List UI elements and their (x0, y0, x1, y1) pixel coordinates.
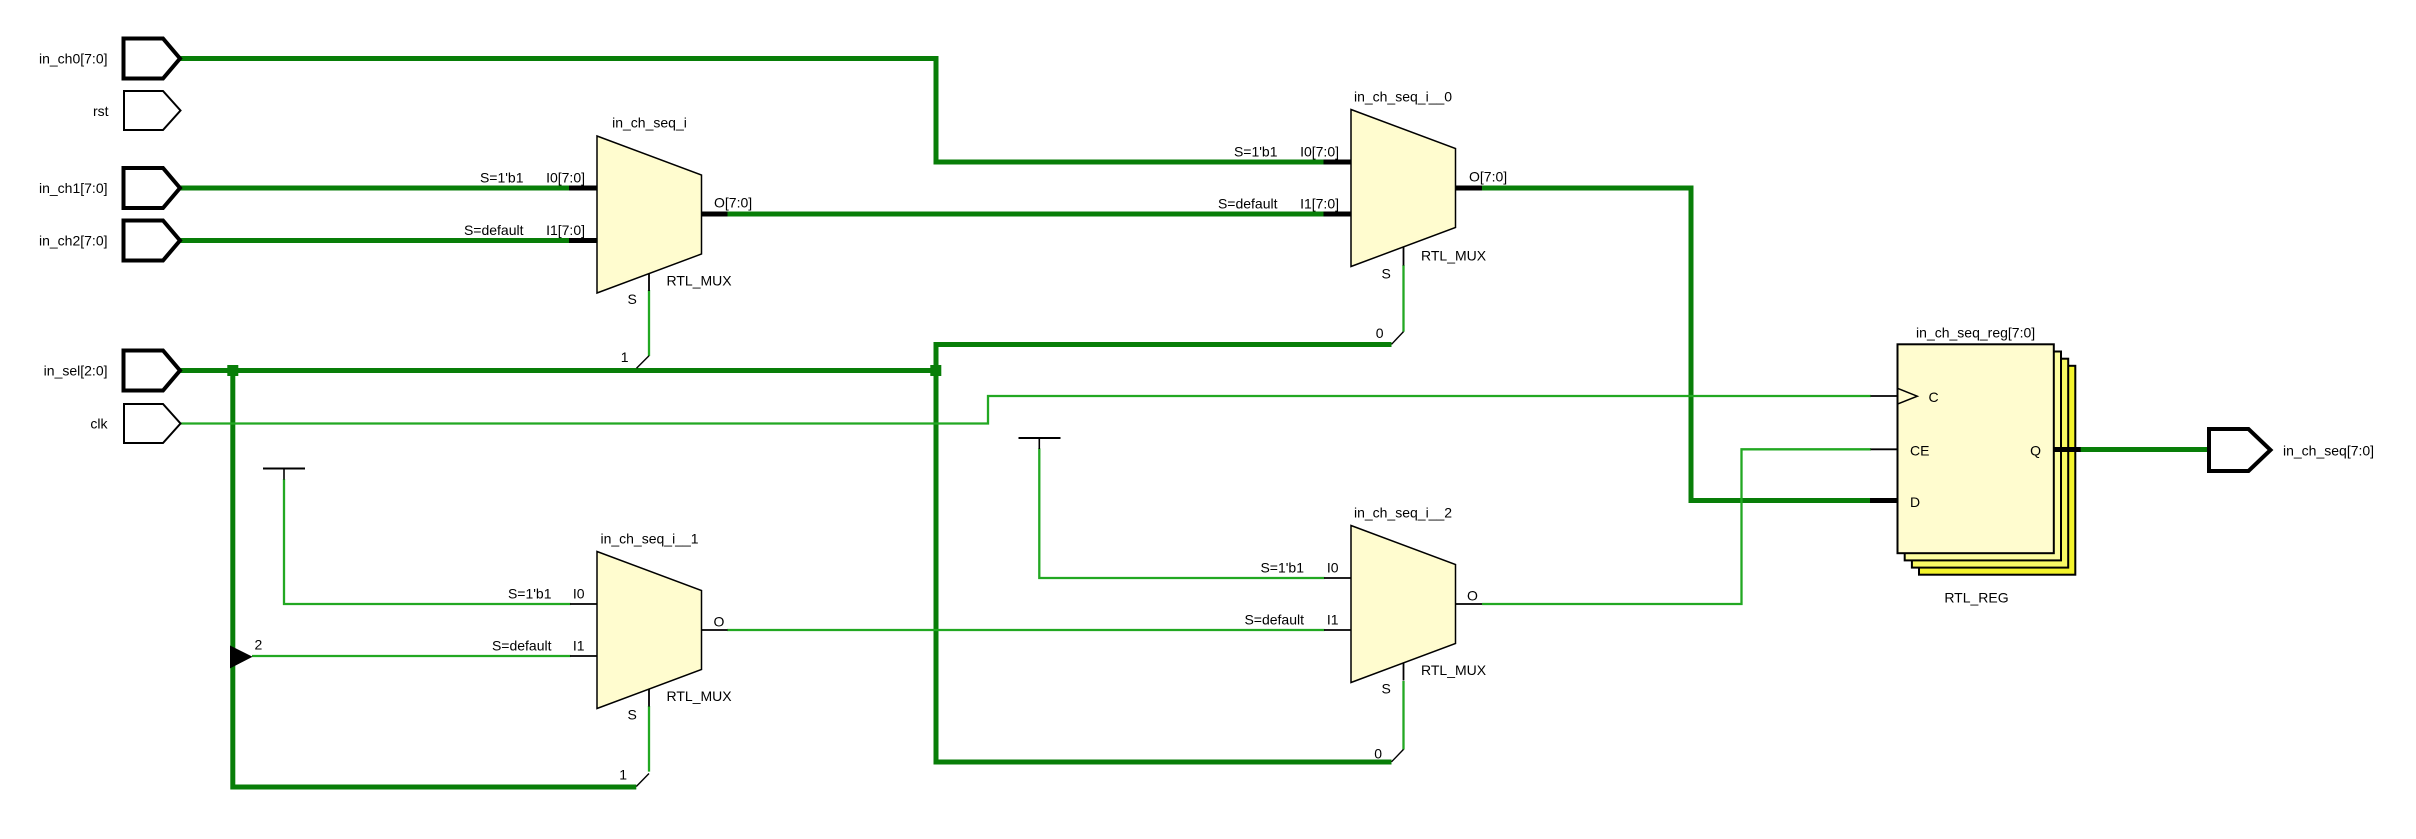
wire bus register Q to output port (2080, 447, 2209, 452)
register stacked layer 2 (1905, 352, 2061, 561)
mux U1 pin S stub (648, 274, 650, 292)
mux U4 in_ch_seq_i__2 body (1351, 526, 1456, 683)
mux U2 pin label I0[7:0] (1300, 144, 1339, 160)
svg-text:in_ch0[7:0]: in_ch0[7:0] (39, 51, 108, 67)
wire net clk to register C (180, 396, 1871, 424)
svg-text:S=default: S=default (464, 222, 524, 238)
wire net mux3 S vertical (648, 706, 650, 772)
wire net mux3 O to mux4 I1 (727, 629, 1325, 631)
wire net mux4 S vertical (1402, 681, 1404, 750)
mux U2 S net value label 0 (1376, 325, 1384, 341)
svg-text:in_ch_seq_i__1: in_ch_seq_i__1 (600, 531, 698, 547)
register clock input triangle on C pin (1898, 388, 1918, 404)
wire net in_sel bit2 tap to mux3 I1 (252, 655, 571, 657)
svg-text:S: S (628, 291, 637, 307)
wire bus in_sel branch left vertical to bottom run (233, 368, 637, 787)
register pin Q stub (2054, 447, 2081, 452)
mux U2 type label RTL_MUX (1421, 248, 1487, 264)
svg-text:clk: clk (90, 416, 108, 432)
svg-text:I1: I1 (573, 638, 585, 654)
svg-text:RTL_MUX: RTL_MUX (1421, 662, 1487, 678)
register pin label D (1910, 494, 1920, 510)
mux U4 S net value label 0 (1374, 746, 1382, 762)
svg-text:O: O (714, 614, 725, 630)
wire bus mux2 O to register D (1482, 188, 1871, 501)
bus ripper slash mux1 S (637, 356, 650, 368)
wire net mux2 S vertical (1402, 265, 1404, 332)
svg-text:O[7:0]: O[7:0] (714, 195, 752, 211)
svg-text:S=1'b1: S=1'b1 (480, 170, 524, 186)
mux U1 pin label O[7:0] (714, 195, 752, 211)
svg-text:D: D (1910, 494, 1920, 510)
mux U4 pin value label S=1'b1 (1260, 560, 1304, 576)
mux U1 pin I0[7:0] stub (569, 186, 597, 191)
mux U4 pin O stub (1456, 603, 1483, 605)
mux U1 pin value label S=1'b1 (480, 170, 524, 186)
mux U1 pin value label S=default (464, 222, 524, 238)
mux U3 pin S stub (648, 689, 650, 707)
svg-text:S=default: S=default (1244, 612, 1304, 628)
svg-text:C: C (1929, 389, 1939, 405)
svg-text:1: 1 (621, 349, 629, 365)
wire bus in_sel branch middle: top run, vertical, bottom run (936, 345, 1392, 763)
mux U2 pin I0[7:0] stub (1324, 160, 1352, 165)
bus ripper slash mux4 S (1392, 749, 1404, 761)
mux U4 pin label O (1467, 588, 1478, 604)
register pin label Q (2030, 443, 2041, 459)
mux U2 pin label I1[7:0] (1300, 196, 1339, 212)
mux U1 instance label (612, 115, 687, 131)
mux U3 pin label O (714, 614, 725, 630)
wire bus in_sel (180, 368, 939, 373)
mux U2 pin O[7:0] stub (1456, 186, 1483, 191)
mux U1 pin O[7:0] stub (702, 212, 728, 217)
register pin C stub (1871, 395, 1898, 397)
svg-text:in_ch_seq_i__2: in_ch_seq_i__2 (1354, 505, 1452, 521)
mux U2 pin S stub (1403, 247, 1405, 266)
svg-text:Q: Q (2030, 443, 2041, 459)
input port rst (93, 91, 181, 130)
svg-text:2: 2 (255, 637, 263, 653)
mux U2 instance label (1354, 89, 1452, 105)
mux U4 pin I1 stub (1324, 629, 1351, 631)
mux U1 pin label S (628, 291, 637, 307)
output port in_ch_seq[7:0] (2209, 429, 2374, 471)
junction in_sel at x=936 (930, 365, 941, 376)
mux U3 instance label (600, 531, 698, 547)
svg-text:in_ch2[7:0]: in_ch2[7:0] (39, 233, 108, 249)
svg-text:O: O (1467, 588, 1478, 604)
svg-text:rst: rst (93, 103, 109, 119)
mux U2 pin value label S=1'b1 (1234, 144, 1278, 160)
wire net mux4 O to register CE (1482, 449, 1871, 604)
value label 2 on tap net (255, 637, 263, 653)
mux U3 pin O stub (702, 629, 728, 631)
svg-text:RTL_MUX: RTL_MUX (667, 273, 733, 289)
mux U1 pin I1[7:0] stub (569, 238, 597, 243)
bus ripper slash mux3 S (636, 774, 649, 787)
svg-text:I0[7:0]: I0[7:0] (1300, 144, 1339, 160)
mux U3 pin value label S=default (492, 638, 552, 654)
mux U4 pin S stub (1403, 663, 1405, 681)
mux U3 pin label I1 (573, 638, 585, 654)
svg-text:S=default: S=default (492, 638, 552, 654)
register front body (1898, 344, 2054, 553)
svg-text:1: 1 (619, 767, 627, 783)
svg-text:RTL_REG: RTL_REG (1944, 590, 2008, 606)
svg-text:CE: CE (1910, 443, 1929, 459)
input port in_ch1[7:0] (39, 168, 180, 208)
svg-text:RTL_MUX: RTL_MUX (667, 688, 733, 704)
svg-text:in_ch_seq[7:0]: in_ch_seq[7:0] (2283, 443, 2374, 459)
svg-text:I1[7:0]: I1[7:0] (1300, 196, 1339, 212)
svg-text:O[7:0]: O[7:0] (1469, 169, 1507, 185)
svg-text:S=default: S=default (1218, 196, 1278, 212)
input port in_ch0[7:0] (39, 39, 180, 79)
register pin CE stub (1871, 448, 1898, 450)
svg-text:I1[7:0]: I1[7:0] (546, 222, 585, 238)
mux U2 pin value label S=default (1218, 196, 1278, 212)
register in_ch_seq_reg[7:0] stacked layer 4 (back) (1919, 366, 2075, 575)
svg-text:in_ch_seq_i: in_ch_seq_i (612, 115, 687, 131)
svg-text:0: 0 (1374, 746, 1382, 762)
mux U1 S net value label 1 (621, 349, 629, 365)
svg-text:I0: I0 (573, 586, 585, 602)
svg-text:in_ch1[7:0]: in_ch1[7:0] (39, 180, 108, 196)
register stacked layer 3 (1912, 359, 2068, 568)
mux U1 pin label I1[7:0] (546, 222, 585, 238)
svg-text:in_ch_seq_i__0: in_ch_seq_i__0 (1354, 89, 1452, 105)
mux U3 in_ch_seq_i__1 body (597, 552, 702, 709)
wire net mux1 S vertical (648, 290, 650, 356)
wire bus in_ch0 to mux2 I0 (180, 59, 1325, 163)
input port in_ch2[7:0] (39, 221, 180, 261)
mux U3 pin label S (628, 707, 637, 723)
wire net constant T1 to mux3 I0 (284, 479, 571, 604)
svg-text:0: 0 (1376, 325, 1384, 341)
svg-text:S=1'b1: S=1'b1 (508, 586, 552, 602)
wire bus in_ch2 to mux1 I1 (180, 238, 570, 243)
mux U4 pin value label S=default (1244, 612, 1304, 628)
mux U2 in_ch_seq_i__0 body (1351, 110, 1456, 267)
input port clk (90, 404, 180, 443)
constant tie T2 (drives mux4 I0) (1019, 438, 1061, 449)
mux U1 type label RTL_MUX (667, 273, 733, 289)
svg-text:in_sel[2:0]: in_sel[2:0] (44, 363, 108, 379)
mux U4 pin label I1 (1327, 612, 1339, 628)
wire bus mux1 O to mux2 I1 (727, 212, 1325, 217)
mux U4 pin label S (1382, 681, 1391, 697)
mux U1 in_ch_seq_i body (597, 136, 702, 293)
constant tie T1 (drives mux3 I0) (263, 469, 305, 480)
mux U4 instance label (1354, 505, 1452, 521)
svg-text:in_ch_seq_reg[7:0]: in_ch_seq_reg[7:0] (1916, 325, 2035, 341)
svg-text:RTL_MUX: RTL_MUX (1421, 248, 1487, 264)
svg-text:I0[7:0]: I0[7:0] (546, 170, 585, 186)
register pin label C (1929, 389, 1939, 405)
mux U4 type label RTL_MUX (1421, 662, 1487, 678)
mux U1 pin label I0[7:0] (546, 170, 585, 186)
svg-text:S=1'b1: S=1'b1 (1234, 144, 1278, 160)
svg-text:S: S (1382, 681, 1391, 697)
mux U2 pin label S (1382, 266, 1391, 282)
mux U3 pin value label S=1'b1 (508, 586, 552, 602)
wire net constant T2 to mux4 I0 (1039, 449, 1324, 579)
svg-text:S=1'b1: S=1'b1 (1260, 560, 1304, 576)
bus tap triangle in_sel bit 2 (230, 646, 253, 669)
mux U3 pin I1 stub (570, 655, 597, 657)
register instance label (1916, 325, 2035, 341)
bus ripper slash mux2 S (1392, 332, 1404, 345)
junction in_sel at x=232.8 (227, 365, 238, 376)
mux U4 pin label I0 (1327, 560, 1339, 576)
svg-text:I0: I0 (1327, 560, 1339, 576)
mux U3 S net value label 1 (619, 767, 627, 783)
wire bus in_ch1 to mux1 I0 (180, 186, 570, 191)
register pin label CE (1910, 443, 1929, 459)
register pin D stub (1870, 498, 1898, 503)
svg-text:S: S (1382, 266, 1391, 282)
svg-text:I1: I1 (1327, 612, 1339, 628)
mux U3 pin I0 stub (570, 603, 597, 605)
input port in_sel[2:0] (44, 351, 180, 391)
mux U2 pin label O[7:0] (1469, 169, 1507, 185)
mux U3 pin label I0 (573, 586, 585, 602)
svg-text:S: S (628, 707, 637, 723)
mux U4 pin I0 stub (1324, 577, 1351, 579)
register type label RTL_REG (1944, 590, 2008, 606)
mux U2 pin I1[7:0] stub (1324, 212, 1352, 217)
mux U3 type label RTL_MUX (667, 688, 733, 704)
